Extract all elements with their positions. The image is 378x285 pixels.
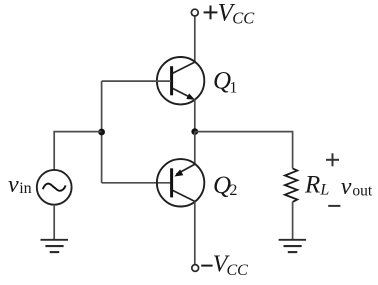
transistor Q1 [157,57,204,104]
source vin [37,170,72,205]
label Q2 [213,172,237,199]
wire base node to vin [54,132,101,170]
wire output node to RL [195,132,293,169]
label - (vout polarity) [328,205,340,207]
svg-text:R: R [304,172,320,199]
node output junction [191,128,198,135]
wire +Vcc terminal to Q1 collector [194,16,196,62]
svg-text:2: 2 [229,182,237,199]
svg-text:out: out [352,182,373,199]
wire Q1 base [102,80,171,82]
label vin [8,172,32,198]
terminal -Vcc [192,265,199,272]
svg-text:CC: CC [232,8,255,27]
wire Q2 collector to -Vcc terminal [194,201,196,264]
wire output node to Q2 emitter [194,132,196,165]
svg-text:v: v [341,174,352,200]
svg-text:Q: Q [213,68,231,95]
terminal +Vcc [191,9,198,16]
svg-text:in: in [19,180,31,197]
resistor RL [285,168,297,202]
wire base node vertical [101,81,103,183]
ground (right) [279,240,307,252]
ground (left) [41,240,69,252]
svg-text:Q: Q [213,172,231,199]
label +Vcc [204,0,256,27]
wire vin to ground [53,205,55,240]
wire Q2 base [102,182,171,184]
svg-text:1: 1 [229,79,237,96]
label vout [341,174,373,200]
wire Q1 emitter to output node [194,99,196,131]
transistor Q2 [157,159,204,206]
wire RL to ground [292,202,294,240]
svg-text:CC: CC [227,262,249,279]
label + (vout polarity) [326,153,339,166]
label Q1 [213,68,237,97]
node base junction [98,129,105,136]
label RL [304,172,329,199]
label -Vcc [201,252,248,279]
svg-text:L: L [319,181,329,198]
svg-text:v: v [8,172,19,198]
